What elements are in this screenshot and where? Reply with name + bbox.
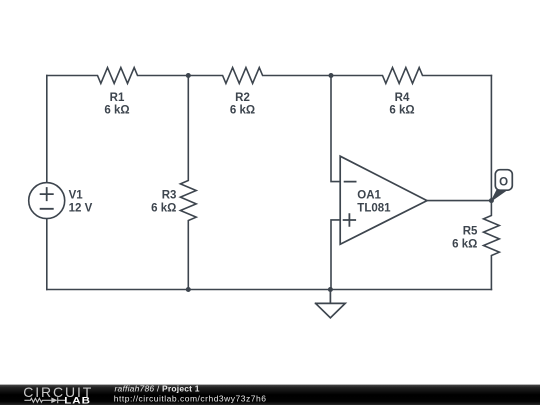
svg-text:R5: R5 <box>463 226 478 238</box>
svg-text:6 kΩ: 6 kΩ <box>389 105 414 117</box>
svg-text:raffiah786 / Project 1: raffiah786 / Project 1 <box>115 384 200 394</box>
svg-text:TL081: TL081 <box>357 203 391 215</box>
svg-text:6 kΩ: 6 kΩ <box>230 105 255 117</box>
svg-text:R2: R2 <box>235 92 250 104</box>
svg-text:6 kΩ: 6 kΩ <box>151 203 176 215</box>
svg-text:O: O <box>499 177 508 189</box>
svg-text:6 kΩ: 6 kΩ <box>452 238 477 250</box>
svg-text:R4: R4 <box>395 92 410 104</box>
svg-text:12 V: 12 V <box>69 203 93 215</box>
svg-text:LAB: LAB <box>64 396 91 405</box>
svg-text:6 kΩ: 6 kΩ <box>104 105 129 117</box>
svg-text:OA1: OA1 <box>357 189 381 201</box>
svg-text:R1: R1 <box>110 92 125 104</box>
svg-text:R3: R3 <box>162 189 177 201</box>
svg-text:http://circuitlab.com/crhd3wy7: http://circuitlab.com/crhd3wy73z7h6 <box>114 394 267 404</box>
svg-text:V1: V1 <box>69 189 84 201</box>
